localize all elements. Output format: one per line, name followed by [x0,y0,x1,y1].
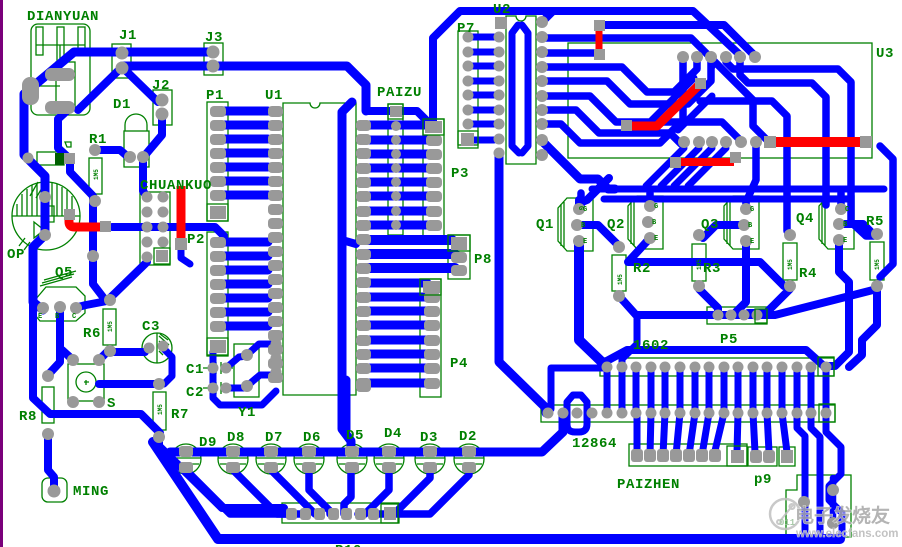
svg-text:G: G [750,206,754,214]
svg-text:1M5: 1M5 [787,259,794,270]
svg-text:D1: D1 [113,97,131,113]
svg-text:Q3: Q3 [701,217,719,233]
svg-text:Q1: Q1 [536,217,554,233]
svg-text:E: E [38,313,42,321]
svg-text:C2: C2 [186,385,204,401]
svg-text:CHUANKUO: CHUANKUO [140,178,212,194]
svg-text:E: E [654,235,658,243]
svg-text:D2: D2 [459,429,477,445]
svg-text:R2: R2 [633,261,651,277]
svg-text:C: C [72,313,76,321]
svg-text:1M5: 1M5 [93,169,100,180]
svg-text:P5: P5 [720,332,738,348]
svg-text:12864: 12864 [572,436,617,452]
svg-text:C: C [845,206,849,214]
svg-text:电子发烧友: 电子发烧友 [795,504,890,527]
svg-text:S: S [107,396,116,412]
svg-text:J3: J3 [205,30,223,46]
svg-text:R6: R6 [83,326,101,342]
svg-text:J2: J2 [152,78,170,94]
svg-text:Q2: Q2 [607,217,625,233]
svg-text:R7: R7 [171,407,189,423]
svg-text:G: G [654,203,658,211]
svg-text:1M5: 1M5 [107,321,114,332]
svg-text:Q5: Q5 [55,265,73,281]
svg-text:P2: P2 [187,232,205,248]
svg-text:1M5: 1M5 [617,274,624,285]
svg-text:D6: D6 [303,430,321,446]
svg-text:J1: J1 [119,28,137,44]
svg-text:D5: D5 [346,428,364,444]
svg-text:E: E [583,238,587,246]
svg-text:R3: R3 [703,261,721,277]
svg-text:Q4: Q4 [796,211,814,227]
svg-text:P3: P3 [451,166,469,182]
svg-text:PAIZU: PAIZU [377,85,422,101]
svg-text:E: E [843,237,847,245]
svg-text:U1: U1 [265,88,283,104]
svg-text:D9: D9 [199,435,217,451]
svg-text:U2: U2 [493,2,511,18]
svg-text:P8: P8 [474,252,492,268]
svg-text:1M5: 1M5 [874,259,881,270]
svg-text:P1: P1 [206,88,224,104]
svg-text:C3: C3 [142,319,160,335]
svg-text:D4: D4 [384,426,402,442]
svg-text:R8: R8 [19,409,37,425]
svg-text:D8: D8 [227,430,245,446]
svg-text:1M5: 1M5 [157,404,164,415]
svg-text:OP: OP [7,247,25,263]
svg-text:D7: D7 [265,430,283,446]
svg-text:P7: P7 [457,21,475,37]
svg-text:G: G [583,206,587,214]
svg-text:R5: R5 [866,214,884,230]
svg-text:R4: R4 [799,266,817,282]
svg-text:E: E [750,238,754,246]
svg-text:P4: P4 [450,356,468,372]
svg-text:MING: MING [73,484,109,500]
svg-text:PAIZHEN: PAIZHEN [617,477,680,493]
svg-text:Y1: Y1 [238,405,256,421]
svg-text:R1: R1 [89,132,107,148]
svg-text:DIANYUAN: DIANYUAN [27,9,99,25]
svg-text:P10: P10 [335,543,362,547]
svg-text:1602: 1602 [633,338,669,354]
svg-text:U3: U3 [876,46,894,62]
svg-text:1M5: 1M5 [696,259,703,270]
svg-text:www.elecfans.com: www.elecfans.com [795,528,898,540]
svg-text:D3: D3 [420,430,438,446]
svg-text:011: 011 [779,518,796,528]
svg-text:p9: p9 [754,472,772,488]
svg-text:C1: C1 [186,362,204,378]
